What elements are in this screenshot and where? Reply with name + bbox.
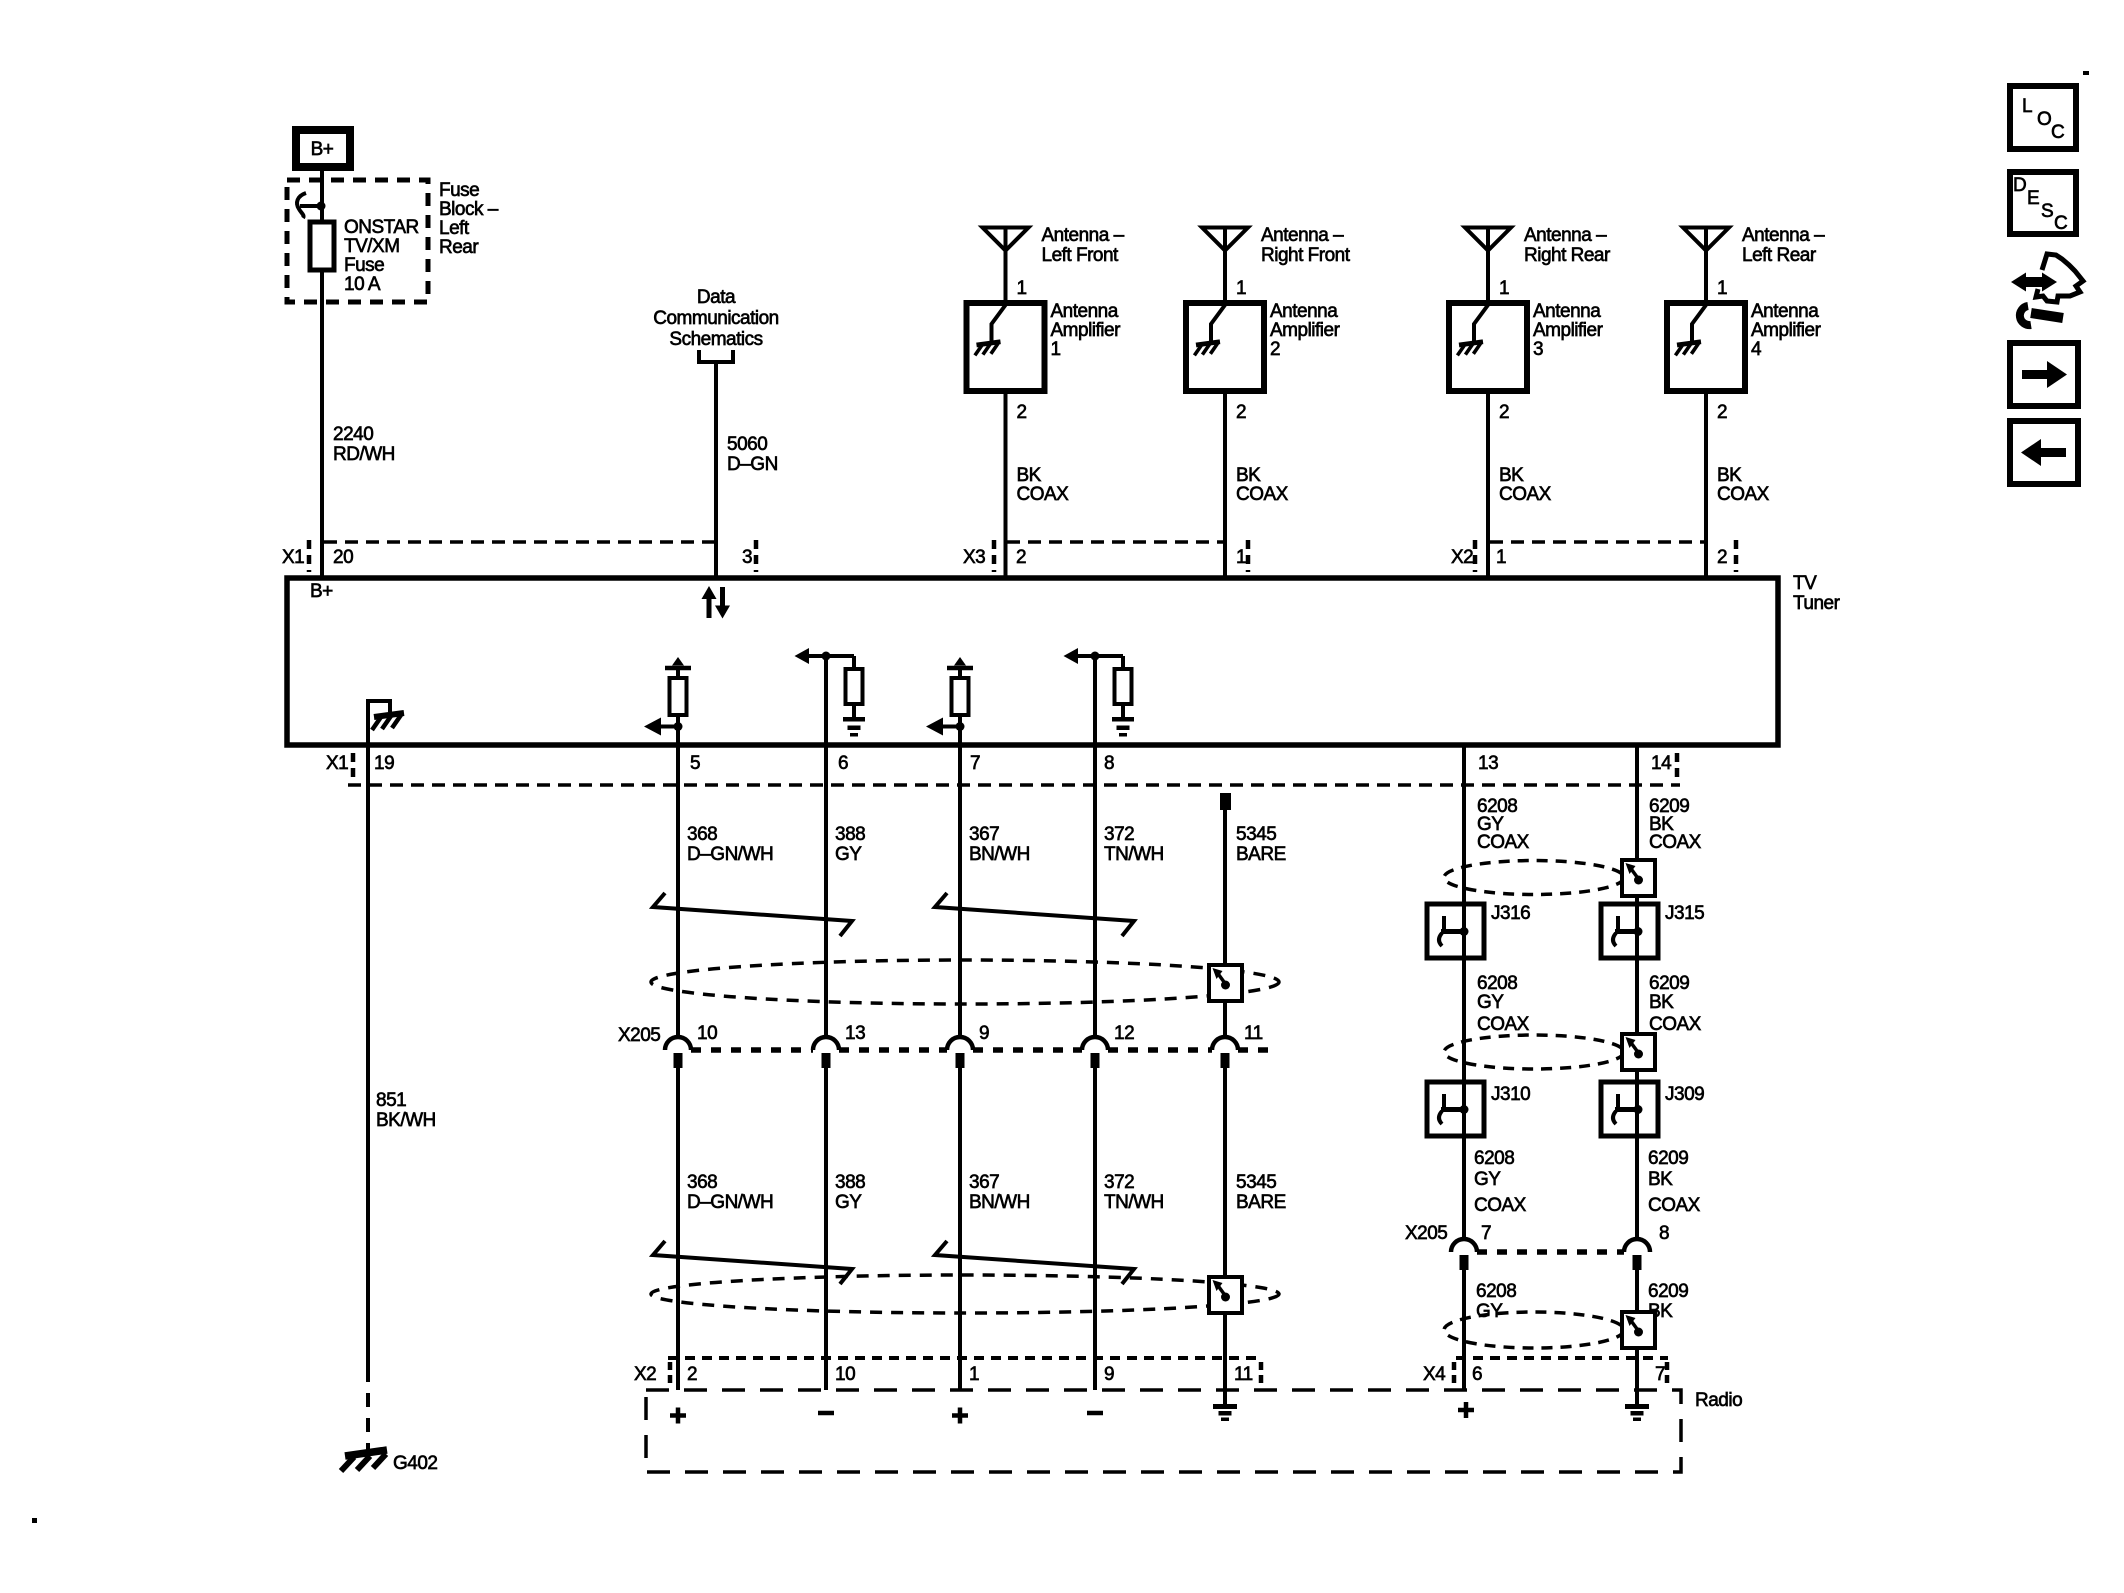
svg-text:Antenna –: Antenna –: [1524, 225, 1607, 246]
wire 5060 D-GN: [716, 364, 778, 578]
svg-text:Rear: Rear: [439, 237, 479, 258]
svg-text:12: 12: [1114, 1023, 1134, 1044]
svg-text:2: 2: [1017, 402, 1027, 423]
svg-text:D–GN/WH: D–GN/WH: [687, 844, 773, 865]
antenna - right front: [1202, 225, 1351, 266]
svg-text:Fuse: Fuse: [439, 180, 479, 201]
radio antenna + terminal (6208): [1458, 1402, 1474, 1418]
svg-text:5345: 5345: [1236, 824, 1276, 845]
svg-text:Tuner: Tuner: [1793, 593, 1841, 614]
X205 pin 10: [665, 1023, 717, 1068]
svg-text:5060: 5060: [727, 434, 767, 455]
svg-text:X205: X205: [618, 1025, 660, 1046]
svg-text:1: 1: [1017, 278, 1027, 299]
svg-text:Left Front: Left Front: [1042, 245, 1120, 266]
svg-text:Block –: Block –: [439, 199, 499, 220]
svg-text:13: 13: [845, 1023, 865, 1044]
connector X4 dashed boundary: [1456, 1356, 1668, 1360]
svg-text:RD/WH: RD/WH: [333, 444, 395, 465]
DESC icon: [2010, 172, 2076, 234]
svg-text:1: 1: [1717, 278, 1727, 299]
svg-text:1: 1: [1236, 547, 1246, 568]
svg-text:J316: J316: [1491, 903, 1530, 924]
wire 6208 GY lower segment: [1464, 1270, 1516, 1390]
svg-text:Antenna –: Antenna –: [1261, 225, 1344, 246]
svg-text:5: 5: [690, 753, 700, 774]
svg-text:C: C: [2051, 122, 2064, 143]
shield termination box (6209 row 2): [1622, 1034, 1655, 1070]
LOC icon: [2010, 86, 2076, 149]
svg-text:TV/XM: TV/XM: [344, 236, 400, 257]
svg-text:851: 851: [376, 1090, 406, 1111]
antenna amplifier 1: [967, 301, 1122, 391]
splice J316: [1427, 903, 1530, 958]
svg-text:5345: 5345: [1236, 1172, 1276, 1193]
svg-text:1: 1: [1236, 278, 1246, 299]
svg-text:Antenna: Antenna: [1751, 301, 1819, 322]
wire 368 lower segment: [678, 1068, 773, 1390]
wire 368 upper segment: [678, 743, 773, 1037]
TV tuner module box: [287, 578, 1778, 745]
svg-text:7: 7: [1481, 1223, 1491, 1244]
svg-text:C: C: [2054, 213, 2067, 234]
svg-text:BK: BK: [1236, 465, 1261, 486]
svg-text:X4: X4: [1423, 1364, 1446, 1385]
svg-text:Antenna: Antenna: [1533, 301, 1601, 322]
radio shield ground (6209): [1625, 1404, 1649, 1421]
internal resistor network pin 8: [1064, 648, 1135, 737]
twisted pair mark (wires 368/388 lower): [653, 1241, 852, 1284]
svg-text:COAX: COAX: [1649, 1014, 1702, 1035]
svg-text:O: O: [2037, 109, 2051, 130]
radio antenna - terminal (388): [818, 1411, 834, 1416]
wire BK COAX from amplifier 2: [1225, 391, 1289, 578]
svg-text:Amplifier: Amplifier: [1533, 320, 1604, 341]
svg-text:X2: X2: [634, 1364, 656, 1385]
svg-text:TN/WH: TN/WH: [1104, 844, 1164, 865]
svg-text:J310: J310: [1491, 1084, 1530, 1105]
coax shield ellipse row 2: [1444, 1035, 1624, 1069]
svg-text:10: 10: [697, 1023, 717, 1044]
shield termination box (6209 row 1): [1622, 860, 1655, 896]
svg-text:388: 388: [835, 1172, 865, 1193]
shield termination box (6209 row 3): [1622, 1312, 1655, 1348]
antenna - left front: [983, 225, 1125, 266]
antenna amplifier 2: [1186, 301, 1341, 391]
svg-text:COAX: COAX: [1477, 832, 1530, 853]
svg-text:4: 4: [1751, 339, 1762, 360]
svg-text:GY: GY: [835, 844, 862, 865]
wire 388 lower segment: [826, 1068, 865, 1390]
wire 6209 BK COAX segment 1: [1637, 743, 1702, 1237]
svg-text:6: 6: [838, 753, 848, 774]
svg-text:BK: BK: [1499, 465, 1524, 486]
svg-text:1: 1: [1496, 547, 1506, 568]
fuse block bus hook: [297, 193, 325, 218]
wire BK COAX from amplifier 1: [1006, 391, 1070, 578]
diagnostic sketch icon: [2011, 254, 2083, 325]
X205 pin 7: [1451, 1223, 1491, 1270]
svg-text:GY: GY: [1477, 992, 1504, 1013]
svg-text:3: 3: [1533, 339, 1543, 360]
X205 pin 9: [947, 1023, 989, 1068]
wire pin8 internal stub: [1093, 656, 1097, 743]
coax shield ellipse row 1: [1444, 861, 1624, 895]
svg-text:X1: X1: [326, 753, 348, 774]
svg-text:TV: TV: [1793, 573, 1817, 594]
svg-text:J309: J309: [1665, 1084, 1704, 1105]
svg-text:7: 7: [1655, 1364, 1665, 1385]
connector X2 dashed boundary (bottom): [668, 1356, 1258, 1360]
wire antenna 4 lead: [1704, 228, 1708, 304]
svg-text:E: E: [2027, 188, 2039, 209]
wire 6209 BK COAX labels segment 2: [1649, 973, 1702, 1035]
svg-text:D–GN: D–GN: [727, 454, 778, 475]
svg-text:B+: B+: [311, 139, 334, 160]
back arrow icon: [2010, 421, 2078, 484]
svg-text:Amplifier: Amplifier: [1751, 320, 1822, 341]
svg-text:2: 2: [1717, 402, 1727, 423]
svg-text:2: 2: [1499, 402, 1509, 423]
shield ellipse upper (drain 5345): [651, 960, 1279, 1004]
wire 367 lower segment: [960, 1068, 1030, 1390]
X205 pin 8: [1624, 1223, 1669, 1270]
svg-text:9: 9: [979, 1023, 989, 1044]
wire 6209 BK COAX labels segment 3: [1648, 1148, 1701, 1216]
svg-text:6208: 6208: [1477, 973, 1517, 994]
internal resistor network pin 6: [795, 648, 866, 737]
stray mark bottom left: [32, 1518, 37, 1523]
svg-text:X2: X2: [1451, 547, 1473, 568]
svg-text:BK: BK: [1649, 992, 1674, 1013]
svg-text:X1: X1: [282, 547, 304, 568]
svg-text:BK/WH: BK/WH: [376, 1110, 436, 1131]
fuse block label: [439, 180, 499, 258]
shield ellipse lower (drain 5345): [651, 1275, 1279, 1313]
antenna amplifier 4: [1667, 301, 1822, 391]
svg-text:1: 1: [1051, 339, 1061, 360]
svg-text:S: S: [2041, 201, 2053, 222]
svg-text:367: 367: [969, 824, 999, 845]
fuse block - left rear dashed enclosure: [287, 180, 428, 302]
wire pin6 internal stub: [824, 656, 828, 743]
svg-text:TN/WH: TN/WH: [1104, 1192, 1164, 1213]
internal ground of TV tuner (pin 19): [368, 701, 404, 743]
svg-text:BN/WH: BN/WH: [969, 1192, 1030, 1213]
svg-text:Antenna: Antenna: [1051, 301, 1119, 322]
radio shield ground (5345): [1213, 1404, 1237, 1421]
X205 pin 12: [1082, 1023, 1134, 1068]
wire 6208 GY COAX segment 1: [1464, 743, 1530, 1237]
wire antenna 3 lead: [1486, 228, 1490, 304]
svg-text:13: 13: [1478, 753, 1498, 774]
svg-text:B+: B+: [310, 581, 333, 602]
svg-text:Communication: Communication: [653, 308, 779, 329]
svg-text:9: 9: [1104, 1364, 1114, 1385]
wire 372 lower segment: [1095, 1068, 1164, 1390]
forward arrow icon: [2010, 343, 2078, 406]
svg-text:Fuse: Fuse: [344, 255, 384, 276]
svg-text:2240: 2240: [333, 424, 373, 445]
svg-text:Data: Data: [697, 287, 736, 308]
svg-text:6208: 6208: [1474, 1148, 1514, 1169]
antenna - right rear: [1465, 225, 1611, 266]
svg-text:ONSTAR: ONSTAR: [344, 217, 419, 238]
svg-text:2: 2: [1717, 547, 1727, 568]
radio antenna + terminal (368): [670, 1408, 686, 1424]
svg-text:COAX: COAX: [1474, 1195, 1527, 1216]
wire 6208 GY COAX labels segment 3: [1474, 1148, 1527, 1216]
svg-text:Amplifier: Amplifier: [1270, 320, 1341, 341]
wire 372 upper segment: [1095, 743, 1164, 1037]
X205 pin 11: [1212, 1023, 1263, 1068]
svg-text:368: 368: [687, 1172, 717, 1193]
svg-text:Schematics: Schematics: [669, 329, 762, 350]
svg-text:2: 2: [1270, 339, 1280, 360]
power symbol B+: [296, 130, 350, 167]
svg-text:20: 20: [333, 547, 353, 568]
svg-text:D: D: [2013, 175, 2026, 196]
svg-text:6209: 6209: [1649, 973, 1689, 994]
wire antenna 1 lead: [1004, 228, 1008, 304]
svg-text:2: 2: [1236, 402, 1246, 423]
radio antenna - terminal (372): [1087, 1411, 1103, 1416]
internal resistor network pin 5: [644, 657, 691, 745]
wire 6208 GY COAX labels segment 2: [1477, 973, 1530, 1035]
ground G402: [341, 1450, 437, 1474]
svg-text:X3: X3: [963, 547, 985, 568]
svg-text:19: 19: [374, 753, 394, 774]
svg-text:Antenna –: Antenna –: [1042, 225, 1125, 246]
svg-text:Antenna –: Antenna –: [1742, 225, 1825, 246]
svg-text:Antenna: Antenna: [1270, 301, 1338, 322]
svg-text:372: 372: [1104, 824, 1134, 845]
svg-text:X205: X205: [1405, 1223, 1447, 1244]
svg-text:11: 11: [1234, 1364, 1253, 1385]
svg-text:6209: 6209: [1648, 1148, 1688, 1169]
svg-text:1: 1: [969, 1364, 979, 1385]
svg-text:COAX: COAX: [1499, 484, 1552, 505]
connector row X1/X3/X2 dashed boundary (top): [324, 540, 714, 544]
splice J309: [1601, 1082, 1704, 1136]
svg-text:6208: 6208: [1476, 1281, 1516, 1302]
wire B+ feed to fuse: [320, 170, 324, 222]
wire 388 upper segment: [826, 743, 865, 1037]
wire 367 upper segment: [960, 743, 1030, 1037]
svg-text:Right Front: Right Front: [1261, 245, 1351, 266]
shield termination box upper (5345): [1209, 965, 1242, 1001]
splice J310: [1427, 1082, 1530, 1136]
twisted pair mark (wires 367/372 upper): [935, 893, 1134, 936]
page mark: [2083, 71, 2089, 75]
wire BK COAX from amplifier 4: [1706, 391, 1770, 578]
splice J315: [1601, 903, 1704, 958]
svg-text:Amplifier: Amplifier: [1051, 320, 1122, 341]
fuse ONSTAR TV/XM 10 A: [310, 217, 419, 295]
svg-text:388: 388: [835, 824, 865, 845]
svg-text:GY: GY: [835, 1192, 862, 1213]
svg-text:3: 3: [742, 547, 752, 568]
TV tuner name label: [1793, 573, 1841, 614]
wire 5345 BARE upper segment: [1220, 793, 1286, 1037]
svg-text:BK: BK: [1717, 465, 1742, 486]
svg-text:14: 14: [1651, 753, 1672, 774]
svg-text:COAX: COAX: [1477, 1014, 1530, 1035]
svg-text:BK: BK: [1017, 465, 1042, 486]
wire antenna 2 lead: [1223, 228, 1227, 304]
svg-text:7: 7: [970, 753, 980, 774]
coax shield ellipse row 3: [1444, 1312, 1624, 1348]
svg-text:J315: J315: [1665, 903, 1704, 924]
svg-text:L: L: [2022, 96, 2032, 117]
svg-text:Left: Left: [439, 218, 470, 239]
serial data up/down arrows: [702, 586, 731, 619]
svg-text:D–GN/WH: D–GN/WH: [687, 1192, 773, 1213]
svg-text:10 A: 10 A: [344, 274, 381, 295]
svg-text:G402: G402: [393, 1453, 437, 1474]
svg-text:2: 2: [687, 1364, 697, 1385]
svg-text:COAX: COAX: [1236, 484, 1289, 505]
svg-text:10: 10: [835, 1364, 855, 1385]
svg-text:BN/WH: BN/WH: [969, 844, 1030, 865]
svg-text:COAX: COAX: [1017, 484, 1070, 505]
svg-text:Right Rear: Right Rear: [1524, 245, 1611, 266]
svg-text:1: 1: [1499, 278, 1509, 299]
svg-text:GY: GY: [1474, 1169, 1501, 1190]
svg-text:BK: BK: [1648, 1169, 1673, 1190]
svg-text:GY: GY: [1476, 1301, 1503, 1322]
svg-text:2: 2: [1016, 547, 1026, 568]
X205 pin 13: [813, 1023, 865, 1068]
internal resistor network pin 7: [926, 657, 973, 745]
svg-text:BARE: BARE: [1236, 1192, 1286, 1213]
svg-text:367: 367: [969, 1172, 999, 1193]
svg-text:6209: 6209: [1648, 1281, 1688, 1302]
svg-text:Radio: Radio: [1695, 1390, 1742, 1411]
svg-text:6: 6: [1472, 1364, 1482, 1385]
svg-text:8: 8: [1659, 1223, 1669, 1244]
data communication schematics reference: [653, 287, 779, 362]
twisted pair mark (wires 368/388 upper): [653, 893, 852, 936]
wire 2240 RD/WH: [322, 270, 395, 578]
svg-text:COAX: COAX: [1649, 832, 1702, 853]
svg-text:Left Rear: Left Rear: [1742, 245, 1817, 266]
wire 5345 BARE lower segment: [1225, 1068, 1286, 1404]
connector X1 dashed boundary (bottom): [348, 783, 1680, 787]
twisted pair mark (wires 367/372 lower): [935, 1241, 1134, 1284]
radio dashed enclosure: [646, 1390, 1681, 1472]
antenna - left rear: [1683, 225, 1825, 266]
wire BK COAX from amplifier 3: [1488, 391, 1552, 578]
shield termination box lower (5345): [1209, 1277, 1242, 1313]
svg-text:COAX: COAX: [1717, 484, 1770, 505]
wire 851 BK/WH to ground: [368, 743, 436, 1450]
svg-text:8: 8: [1104, 753, 1114, 774]
svg-text:368: 368: [687, 824, 717, 845]
svg-text:COAX: COAX: [1648, 1195, 1701, 1216]
wire 6209 BK lower segment: [1637, 1270, 1688, 1404]
antenna amplifier 3: [1449, 301, 1604, 391]
svg-text:372: 372: [1104, 1172, 1134, 1193]
radio antenna + terminal (367): [952, 1408, 968, 1424]
svg-text:BARE: BARE: [1236, 844, 1286, 865]
svg-text:11: 11: [1244, 1023, 1263, 1044]
